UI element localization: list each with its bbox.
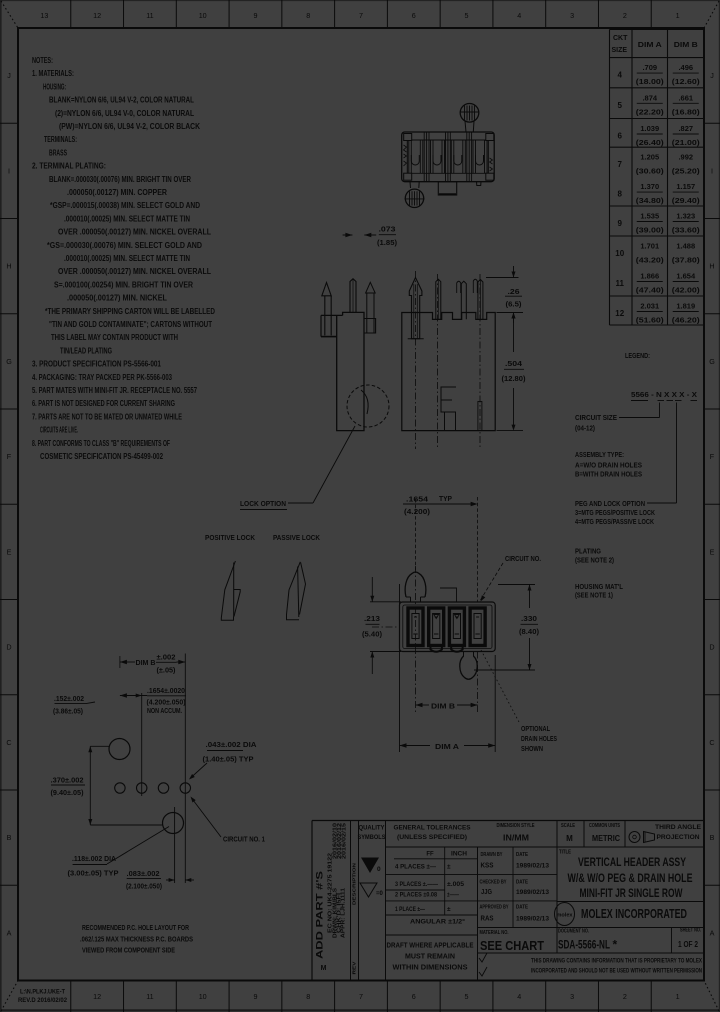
svg-text:G: G xyxy=(6,357,12,366)
svg-text:MOLEX INCORPORATED: MOLEX INCORPORATED xyxy=(581,907,687,921)
svg-text:APPROVED BY: APPROVED BY xyxy=(480,905,509,911)
front view: housing body xyxy=(402,313,495,431)
svg-text:DIM B: DIM B xyxy=(136,658,157,667)
svg-text:DIM B: DIM B xyxy=(674,40,699,49)
svg-text:.062/.125 MAX THICKNESS P.C. B: .062/.125 MAX THICKNESS P.C. BOARDS xyxy=(80,935,193,944)
svg-text:I: I xyxy=(711,166,713,175)
svg-text:"TIN AND GOLD CONTAMINATE"; CA: "TIN AND GOLD CONTAMINATE"; CARTONS WITH… xyxy=(49,320,212,329)
svg-text:A: A xyxy=(710,928,715,937)
svg-text:1989/02/13: 1989/02/13 xyxy=(516,864,550,870)
svg-text:.709: .709 xyxy=(642,63,657,72)
svg-text:NON ACCUM.: NON ACCUM. xyxy=(147,708,182,715)
svg-text:I: I xyxy=(8,166,10,175)
svg-text:(34.80): (34.80) xyxy=(636,196,665,205)
third angle projection symbol xyxy=(629,832,640,843)
svg-text:DRAIN HOLES: DRAIN HOLES xyxy=(521,734,557,743)
bottom view: mounting peg top xyxy=(405,572,426,597)
dimension .330/(8.40) xyxy=(498,584,535,586)
svg-text:OVER .000050(.00127) MIN. NICK: OVER .000050(.00127) MIN. NICKEL OVERALL xyxy=(58,228,211,237)
svg-text:GENERAL TOLERANCES: GENERAL TOLERANCES xyxy=(394,825,472,832)
svg-text:.000050(.00127) MIN. NICKEL: .000050(.00127) MIN. NICKEL xyxy=(67,294,167,303)
svg-text:BLANK=NYLON 6/6, UL94 V-2, COL: BLANK=NYLON 6/6, UL94 V-2, COLOR NATURAL xyxy=(49,96,194,105)
pcb layout: centerline hole 2 xyxy=(141,693,143,796)
front view: hidden drain pocket xyxy=(441,387,456,412)
svg-text:H: H xyxy=(709,262,714,271)
top view: inner shelf lines xyxy=(412,139,486,141)
svg-text:(1.40±.05) TYP: (1.40±.05) TYP xyxy=(203,757,254,764)
svg-text:6: 6 xyxy=(412,992,416,1001)
svg-text:(12.60): (12.60) xyxy=(672,77,701,86)
svg-text:PLATING: PLATING xyxy=(575,547,601,556)
svg-text:.370±.002: .370±.002 xyxy=(51,778,84,785)
svg-text:APPR: LJH.1111: APPR: LJH.1111 xyxy=(341,888,347,938)
svg-text:SEE CHART: SEE CHART xyxy=(480,938,544,953)
svg-text:PROJECTION: PROJECTION xyxy=(657,835,700,841)
svg-text:SHEET NO.: SHEET NO. xyxy=(680,928,701,934)
svg-text:DIM A: DIM A xyxy=(435,742,460,751)
svg-text:1.157: 1.157 xyxy=(676,182,695,191)
svg-text:12: 12 xyxy=(93,11,101,20)
svg-text:(8.40): (8.40) xyxy=(519,627,540,636)
svg-text:(SEE NOTE 1): (SEE NOTE 1) xyxy=(575,590,613,599)
svg-text:(5.40): (5.40) xyxy=(362,630,383,639)
svg-text:.043±.002 DIA: .043±.002 DIA xyxy=(206,742,257,749)
svg-text:THIRD ANGLE: THIRD ANGLE xyxy=(655,825,701,831)
svg-text:M: M xyxy=(321,965,327,972)
svg-text:±: ± xyxy=(447,864,451,871)
svg-text:*THE PRIMARY SHIPPING CARTON W: *THE PRIMARY SHIPPING CARTON WILL BE LAB… xyxy=(45,307,215,316)
svg-text:D: D xyxy=(6,643,11,652)
svg-text:4 PLACES ±—: 4 PLACES ±— xyxy=(395,864,436,871)
svg-text:(PW)=NYLON 6/6, UL94 V-2, COLO: (PW)=NYLON 6/6, UL94 V-2, COLOR BLACK xyxy=(59,122,200,131)
svg-text:TYP: TYP xyxy=(439,496,452,503)
svg-text:DOCUMENT NO.: DOCUMENT NO. xyxy=(558,929,589,935)
svg-text:DIMENSION STYLE: DIMENSION STYLE xyxy=(497,823,535,829)
svg-text:TITLE: TITLE xyxy=(559,850,571,856)
dimension DIM A xyxy=(399,584,401,752)
svg-text:.330: .330 xyxy=(521,614,537,623)
svg-text:.073: .073 xyxy=(379,225,396,234)
pcb layout: peg hole bottom xyxy=(163,813,184,834)
svg-text:.26: .26 xyxy=(508,287,520,296)
bottom view: polarity marks xyxy=(434,615,439,619)
margin zone grid ticks xyxy=(70,0,72,28)
svg-text:OPTIONAL: OPTIONAL xyxy=(521,724,550,733)
svg-text:WITHIN DIMENSIONS: WITHIN DIMENSIONS xyxy=(393,965,468,972)
svg-text:10: 10 xyxy=(615,249,624,258)
svg-text:3: 3 xyxy=(570,992,574,1001)
svg-text:CIRCUITS ARE LIVE.: CIRCUITS ARE LIVE. xyxy=(40,426,78,435)
svg-text:.1654: .1654 xyxy=(406,495,429,504)
svg-text:ASSEMBLY TYPE:: ASSEMBLY TYPE: xyxy=(575,450,624,459)
svg-text:.827: .827 xyxy=(678,124,693,133)
svg-text:INCORPORATED AND SHOULD NOT BE: INCORPORATED AND SHOULD NOT BE USED WITH… xyxy=(531,968,702,975)
svg-text:(30.60): (30.60) xyxy=(636,167,665,176)
top view: mounting peg bottom xyxy=(405,189,423,207)
circuit size dimension table xyxy=(609,30,611,326)
svg-text:MATERIAL NO.: MATERIAL NO. xyxy=(480,930,509,936)
svg-text:1.205: 1.205 xyxy=(640,153,659,162)
front view: mounting peg circuit 1 xyxy=(409,278,422,339)
title block frame xyxy=(312,820,704,822)
svg-text:SIZE: SIZE xyxy=(612,47,628,54)
svg-text:DRAFT WHERE APPLICABLE: DRAFT WHERE APPLICABLE xyxy=(387,943,474,950)
svg-text:.083±.002: .083±.002 xyxy=(127,871,160,878)
svg-text:DATE: DATE xyxy=(516,905,528,911)
svg-text:FF: FF xyxy=(426,852,434,858)
svg-text:.661: .661 xyxy=(678,93,693,102)
dimension DIM B pcb xyxy=(120,660,127,664)
svg-text:(46.20): (46.20) xyxy=(672,316,701,325)
svg-text:A: A xyxy=(7,928,12,937)
bottom view: housing outline xyxy=(400,602,496,652)
svg-text:=0: =0 xyxy=(376,891,384,897)
svg-text:CIRCUIT NO.: CIRCUIT NO. xyxy=(505,554,541,563)
svg-text:REV.D 2016/02/02: REV.D 2016/02/02 xyxy=(18,998,68,1004)
svg-text:9: 9 xyxy=(253,992,257,1001)
front view: pin tail in cavity xyxy=(478,402,482,431)
svg-text:A=W/O DRAIN HOLES: A=W/O DRAIN HOLES xyxy=(575,460,642,469)
dimension DIM B xyxy=(416,704,430,706)
svg-text:8. PART CONFORMS TO CLASS "B": 8. PART CONFORMS TO CLASS "B" REQUIREMEN… xyxy=(32,439,170,448)
svg-text:PASSIVE LOCK: PASSIVE LOCK xyxy=(273,533,320,542)
svg-text:B=WITH DRAIN HOLES: B=WITH DRAIN HOLES xyxy=(575,469,642,478)
front view: pin circuit 2 xyxy=(436,279,441,319)
svg-text:4=MTG PEGS/PASSIVE LOCK: 4=MTG PEGS/PASSIVE LOCK xyxy=(575,517,654,526)
side view: lock detail balloon xyxy=(347,385,389,427)
svg-text:±: ± xyxy=(447,906,451,913)
svg-text:3=MTG PEGS/POSITIVE LOCK: 3=MTG PEGS/POSITIVE LOCK xyxy=(575,508,655,517)
pcb layout: centerline bottom peg xyxy=(174,807,176,883)
svg-text:(3.86±.05): (3.86±.05) xyxy=(53,709,83,716)
svg-text:(16.80): (16.80) xyxy=(672,107,701,116)
svg-text:1.819: 1.819 xyxy=(676,302,695,311)
svg-text:(4.200): (4.200) xyxy=(404,507,431,516)
svg-text:VERTICAL HEADER ASSY: VERTICAL HEADER ASSY xyxy=(578,855,686,869)
svg-text:W/& W/O PEG & DRAIN HOLE: W/& W/O PEG & DRAIN HOLE xyxy=(568,871,693,885)
svg-text:.118±.002 DIA: .118±.002 DIA xyxy=(72,856,116,863)
svg-text:JJG: JJG xyxy=(481,889,492,896)
svg-text:6. PART IS NOT DESIGNED FOR CU: 6. PART IS NOT DESIGNED FOR CURRENT SHAR… xyxy=(32,399,175,408)
svg-text:7: 7 xyxy=(359,11,363,20)
dimension .26/(6.5) pin height xyxy=(486,277,519,279)
svg-text:1.488: 1.488 xyxy=(676,242,695,251)
check marks xyxy=(479,953,487,962)
dimension .1654/(4.200) TYP xyxy=(403,503,473,505)
svg-text:CIRCUIT SIZE: CIRCUIT SIZE xyxy=(575,413,617,422)
svg-text:1.039: 1.039 xyxy=(640,124,659,133)
pcb layout: peg hole top xyxy=(109,739,130,760)
svg-text:1 OF 2: 1 OF 2 xyxy=(678,940,698,949)
bottom view: drain channels under cavities 2-3 xyxy=(431,644,442,652)
svg-text:RECOMMENDED P.C. HOLE LAYOUT F: RECOMMENDED P.C. HOLE LAYOUT FOR xyxy=(82,923,189,932)
svg-text:D: D xyxy=(709,643,714,652)
svg-text:(51.60): (51.60) xyxy=(636,316,665,325)
drawn/checked/approved cells xyxy=(477,847,479,981)
svg-text:(2)=NYLON 6/6, UL94 V-0, COLOR: (2)=NYLON 6/6, UL94 V-0, COLOR NATURAL xyxy=(55,109,194,118)
svg-text:DIM A: DIM A xyxy=(638,40,663,49)
revision strip xyxy=(350,821,352,981)
svg-text:BRASS: BRASS xyxy=(49,148,67,157)
svg-text:DIM B: DIM B xyxy=(431,702,456,711)
svg-text:(12.80): (12.80) xyxy=(502,374,527,383)
svg-text:(22.20): (22.20) xyxy=(636,107,665,116)
svg-text:(9.40±.05): (9.40±.05) xyxy=(51,790,84,797)
scale cell xyxy=(583,821,585,848)
leader to lock option label xyxy=(313,426,355,503)
svg-text:0: 0 xyxy=(377,866,381,873)
svg-text:QUALITY: QUALITY xyxy=(359,825,386,832)
front view: pin circuit 4 with drain peg xyxy=(473,279,477,293)
svg-text:3. PRODUCT SPECIFICATION PS-55: 3. PRODUCT SPECIFICATION PS-5566-001 xyxy=(32,360,161,369)
svg-text:THIS LABEL MAY CONTAIN PRODUCT: THIS LABEL MAY CONTAIN PRODUCT WITH xyxy=(51,333,178,342)
pcb layout: pin holes xyxy=(115,783,125,793)
svg-text:5: 5 xyxy=(618,101,623,110)
bottom view: terminal slots xyxy=(408,608,423,646)
svg-text:1.654: 1.654 xyxy=(676,272,696,281)
svg-text:(47.40): (47.40) xyxy=(636,286,665,295)
svg-text:8: 8 xyxy=(306,11,310,20)
quality symbols cell xyxy=(385,821,387,981)
corner diagonals xyxy=(1,1,18,28)
svg-text:2.031: 2.031 xyxy=(640,302,659,311)
dimension .073/(1.85) xyxy=(343,234,353,236)
svg-text:THIS DRAWING CONTAINS INFORMAT: THIS DRAWING CONTAINS INFORMATION THAT I… xyxy=(531,958,702,965)
svg-text:L:\N.PLKJ.UKE-T: L:\N.PLKJ.UKE-T xyxy=(20,990,65,996)
svg-text:(1.85): (1.85) xyxy=(377,238,398,247)
svg-text:7: 7 xyxy=(618,160,623,169)
svg-text:6: 6 xyxy=(412,11,416,20)
svg-text:.496: .496 xyxy=(678,63,693,72)
svg-text:5566 - N X X X - X: 5566 - N X X X - X xyxy=(631,390,697,399)
svg-text:.504: .504 xyxy=(505,359,523,368)
svg-text:7. PARTS ARE NOT TO BE MATED O: 7. PARTS ARE NOT TO BE MATED OR UNMATED … xyxy=(32,412,182,421)
svg-text:11: 11 xyxy=(146,11,153,20)
svg-text:1. MATERIALS:: 1. MATERIALS: xyxy=(32,69,74,78)
svg-text:(37.80): (37.80) xyxy=(672,256,701,265)
material no cell xyxy=(478,927,705,929)
svg-text:3 PLACES ±.——: 3 PLACES ±.—— xyxy=(395,881,438,888)
svg-text:11: 11 xyxy=(146,992,153,1001)
svg-text:(18.00): (18.00) xyxy=(636,77,665,86)
svg-text:2: 2 xyxy=(623,11,627,20)
svg-text:COSMETIC SPECIFICATION PS-4549: COSMETIC SPECIFICATION PS-45499-002 xyxy=(40,452,163,461)
svg-text:5. PART MATES WITH MINI-FIT JR: 5. PART MATES WITH MINI-FIT JR. RECEPTAC… xyxy=(32,386,197,395)
svg-text:8: 8 xyxy=(618,190,623,199)
top view: corner pads xyxy=(404,134,412,141)
draft note xyxy=(478,952,705,954)
svg-text:MUST REMAIN: MUST REMAIN xyxy=(405,954,455,961)
dimension .504/(12.80) housing height xyxy=(497,430,524,432)
svg-text:1.370: 1.370 xyxy=(640,182,659,191)
svg-text:CHECKED BY: CHECKED BY xyxy=(480,880,507,886)
svg-text:C: C xyxy=(6,738,11,747)
svg-text:METRIC: METRIC xyxy=(592,834,620,843)
svg-text:3: 3 xyxy=(570,11,574,20)
svg-text:.000010(.00025) MIN. SELECT MA: .000010(.00025) MIN. SELECT MATTE TIN xyxy=(64,254,190,263)
top view: mounting peg top xyxy=(460,104,479,123)
svg-text:ANGULAR ±1/2°: ANGULAR ±1/2° xyxy=(410,918,465,926)
svg-text:(26.40): (26.40) xyxy=(636,138,665,147)
svg-text:±.002: ±.002 xyxy=(157,655,176,662)
svg-text:IN/MM: IN/MM xyxy=(503,834,529,843)
svg-text:2: 2 xyxy=(623,992,627,1001)
svg-text:J: J xyxy=(7,71,11,80)
svg-text:1 PLACE ±—: 1 PLACE ±— xyxy=(395,906,425,913)
svg-text:CKT: CKT xyxy=(613,35,628,42)
svg-text:NOTES:: NOTES: xyxy=(32,56,53,65)
svg-text:.000010(.00025) MIN. SELECT MA: .000010(.00025) MIN. SELECT MATTE TIN xyxy=(64,214,190,223)
svg-text:13: 13 xyxy=(40,11,48,20)
svg-text:G: G xyxy=(709,357,715,366)
passive lock profile xyxy=(287,562,301,620)
svg-text:POSITIVE LOCK: POSITIVE LOCK xyxy=(205,533,255,542)
svg-text:(04-12): (04-12) xyxy=(575,423,595,432)
bottom view centerlines xyxy=(415,566,417,712)
svg-text:.874: .874 xyxy=(642,93,657,102)
top view: small notch xyxy=(477,182,482,186)
svg-text:4. PACKAGING: TRAY PACKED PER: 4. PACKAGING: TRAY PACKED PER PK-5566-00… xyxy=(32,373,172,382)
svg-text:C: C xyxy=(709,738,714,747)
svg-text:11: 11 xyxy=(616,279,625,288)
side view: housing body xyxy=(337,312,364,430)
svg-text:E: E xyxy=(710,547,715,556)
svg-text:(SEE NOTE 2): (SEE NOTE 2) xyxy=(575,555,614,564)
svg-text:SCALE: SCALE xyxy=(561,823,575,829)
front view: pin circuit 3 with drain peg xyxy=(457,281,461,293)
svg-text:INCH: INCH xyxy=(451,852,467,858)
svg-text:LEGEND:: LEGEND: xyxy=(625,351,650,360)
svg-text:S=.000100(.00254) MIN. BRIGHT: S=.000100(.00254) MIN. BRIGHT TIN OVER xyxy=(54,280,193,289)
svg-text:.152±.002: .152±.002 xyxy=(54,696,84,703)
svg-text:(21.00): (21.00) xyxy=(672,138,701,147)
svg-text:B: B xyxy=(7,833,12,842)
svg-text:DATE: DATE xyxy=(516,852,528,858)
svg-text:TERMINALS:: TERMINALS: xyxy=(44,135,77,144)
svg-text:1.701: 1.701 xyxy=(640,242,659,251)
svg-text:LOCK OPTION: LOCK OPTION xyxy=(240,499,286,508)
svg-text:5: 5 xyxy=(465,11,469,20)
svg-text:10: 10 xyxy=(199,11,207,20)
svg-text:SDA-5566-NL: SDA-5566-NL xyxy=(558,938,610,952)
svg-text:2016/02/15: 2016/02/15 xyxy=(342,823,348,859)
svg-text:DATE: DATE xyxy=(516,880,528,886)
svg-text:BLANK=.000030(.00076) MIN. BRI: BLANK=.000030(.00076) MIN. BRIGHT TIN OV… xyxy=(49,175,191,184)
svg-text:CIRCUIT NO. 1: CIRCUIT NO. 1 xyxy=(223,835,265,844)
svg-text:(2.100±.050): (2.100±.050) xyxy=(126,884,162,891)
svg-text:*GS=.000030(.00076) MIN. SELEC: *GS=.000030(.00076) MIN. SELECT GOLD AND xyxy=(47,241,202,250)
svg-text:(±.05): (±.05) xyxy=(157,668,176,675)
svg-text:4: 4 xyxy=(517,11,521,20)
svg-text:1: 1 xyxy=(676,992,680,1001)
svg-text:(29.40): (29.40) xyxy=(672,196,701,205)
svg-text:COMMON UNITS: COMMON UNITS xyxy=(589,823,620,829)
svg-text:7: 7 xyxy=(359,992,363,1001)
svg-text:RAS: RAS xyxy=(481,916,494,923)
svg-text:.000050(.00127) MIN. COPPER: .000050(.00127) MIN. COPPER xyxy=(67,188,167,197)
svg-text:H: H xyxy=(6,262,11,271)
svg-text:PEG AND LOCK OPTION: PEG AND LOCK OPTION xyxy=(575,499,645,508)
svg-text:VIEWED FROM COMPONENT SIDE: VIEWED FROM COMPONENT SIDE xyxy=(82,946,175,955)
svg-text:(43.20): (43.20) xyxy=(636,256,665,265)
svg-text:12: 12 xyxy=(615,309,624,318)
svg-text:1.323: 1.323 xyxy=(676,212,695,221)
dimension .1654 non accum xyxy=(120,693,127,697)
svg-text:4: 4 xyxy=(517,992,521,1001)
bottom view: rib reference line xyxy=(440,588,457,602)
top view: end walls xyxy=(406,140,408,173)
svg-text:KSS: KSS xyxy=(481,863,494,870)
svg-text:*: * xyxy=(613,938,618,952)
side view: left peg with point xyxy=(322,283,331,296)
common units cell xyxy=(624,821,626,848)
svg-text:.992: .992 xyxy=(678,153,693,162)
svg-text:10: 10 xyxy=(199,992,207,1001)
molex logo xyxy=(557,901,704,903)
svg-text:±——: ±—— xyxy=(447,892,459,899)
svg-text:4: 4 xyxy=(618,71,623,80)
svg-text:F: F xyxy=(710,452,715,461)
svg-text:±.005: ±.005 xyxy=(447,881,464,888)
side view: center pin xyxy=(350,279,356,313)
positive lock profile xyxy=(221,561,235,620)
pcb layout: datum line circuit 1 xyxy=(184,654,186,884)
tolerance table xyxy=(386,846,705,848)
svg-text:SHOWN: SHOWN xyxy=(521,744,543,753)
page edge scan artifacts xyxy=(0,0,720,2)
svg-text:J: J xyxy=(710,71,714,80)
svg-text:(42.00): (42.00) xyxy=(672,286,701,295)
svg-text:.1654±.0020: .1654±.0020 xyxy=(147,688,185,695)
dimension .213/(5.40) xyxy=(370,601,401,603)
svg-text:9: 9 xyxy=(253,11,257,20)
side view: left flange xyxy=(321,314,343,316)
side view: right flange and peg xyxy=(364,319,376,334)
svg-text:(6.5): (6.5) xyxy=(506,300,523,309)
svg-text:12: 12 xyxy=(93,992,101,1001)
top view: cavity partitions xyxy=(423,132,425,182)
svg-text:MINI-FIT JR SINGLE ROW: MINI-FIT JR SINGLE ROW xyxy=(580,886,683,900)
svg-text:*GSP=.000015(.00038) MIN. SELE: *GSP=.000015(.00038) MIN. SELECT GOLD AN… xyxy=(50,201,200,210)
svg-text:molex: molex xyxy=(557,913,573,919)
svg-text:1989/02/13: 1989/02/13 xyxy=(516,890,550,896)
bottom view: mounting peg bottom (drain) xyxy=(460,656,477,679)
svg-text:DRAWN BY: DRAWN BY xyxy=(481,852,503,858)
svg-text:1.535: 1.535 xyxy=(640,212,659,221)
svg-text:2 PLACES ±0.08: 2 PLACES ±0.08 xyxy=(395,892,437,899)
svg-text:(25.20): (25.20) xyxy=(672,167,701,176)
svg-text:HOUSING:: HOUSING: xyxy=(43,82,66,91)
svg-text:DESCRIPTION: DESCRIPTION xyxy=(352,863,357,905)
svg-text:E: E xyxy=(7,547,12,556)
svg-text:M: M xyxy=(566,834,573,843)
svg-text:5: 5 xyxy=(465,992,469,1001)
svg-text:TIN/LEAD PLATING: TIN/LEAD PLATING xyxy=(60,346,112,355)
svg-text:ADD PART #'S: ADD PART #'S xyxy=(315,871,326,959)
svg-text:9: 9 xyxy=(618,219,623,228)
svg-text:OVER .000050(.00127) MIN. NICK: OVER .000050(.00127) MIN. NICKEL OVERALL xyxy=(58,267,211,276)
top view: polarization rib xyxy=(438,182,456,195)
svg-text:1989/02/13: 1989/02/13 xyxy=(516,917,550,923)
svg-text:1: 1 xyxy=(676,11,680,20)
svg-text:REV: REV xyxy=(352,962,357,975)
svg-text:6: 6 xyxy=(618,132,623,141)
svg-text:F: F xyxy=(7,452,12,461)
svg-text:(4.200±.050): (4.200±.050) xyxy=(147,700,186,707)
top view: header housing outline xyxy=(402,132,495,182)
front view: centerlines xyxy=(415,271,417,449)
svg-text:B: B xyxy=(710,833,715,842)
